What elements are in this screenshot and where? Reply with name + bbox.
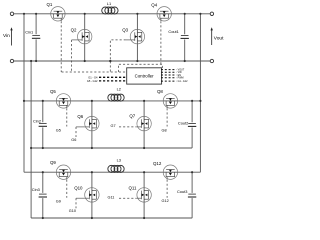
svg-text:Q3: Q3 bbox=[122, 27, 128, 32]
svg-text:G11: G11 bbox=[108, 195, 115, 199]
svg-text:L1: L1 bbox=[107, 1, 111, 6]
svg-text:G9: G9 bbox=[56, 200, 61, 204]
svg-text:Cout3: Cout3 bbox=[177, 189, 187, 194]
svg-text:G12: G12 bbox=[162, 199, 169, 203]
svg-text:G6: G6 bbox=[71, 138, 76, 142]
svg-text:Cin1: Cin1 bbox=[25, 29, 33, 34]
svg-text:Cout2: Cout2 bbox=[178, 121, 188, 126]
svg-text:Controller: Controller bbox=[135, 74, 155, 79]
svg-text:Q4: Q4 bbox=[151, 2, 157, 7]
svg-text:L3: L3 bbox=[117, 157, 121, 162]
svg-text:Q9: Q9 bbox=[50, 160, 56, 165]
svg-text:G7: G7 bbox=[111, 124, 116, 128]
svg-text:G1 - G4: G1 - G4 bbox=[88, 76, 98, 80]
svg-text:Q8: Q8 bbox=[157, 89, 163, 94]
svg-text:Cin2: Cin2 bbox=[33, 118, 41, 123]
svg-text:Q2: Q2 bbox=[71, 27, 77, 32]
svg-text:Cout1: Cout1 bbox=[168, 29, 178, 34]
svg-text:Q6: Q6 bbox=[77, 114, 83, 119]
svg-text:Q12: Q12 bbox=[153, 161, 162, 166]
svg-text:G10: G10 bbox=[69, 209, 76, 213]
svg-text:Q5: Q5 bbox=[50, 89, 56, 94]
svg-text:Cin3: Cin3 bbox=[32, 187, 40, 192]
svg-text:Vout: Vout bbox=[214, 36, 224, 42]
svg-text:G5 - G12: G5 - G12 bbox=[87, 79, 98, 83]
svg-text:Q7: Q7 bbox=[129, 114, 135, 119]
svg-text:L2: L2 bbox=[117, 86, 121, 91]
svg-text:Q11: Q11 bbox=[129, 186, 138, 191]
svg-text:G1 - G12: G1 - G12 bbox=[178, 80, 189, 83]
svg-text:Q10: Q10 bbox=[74, 186, 83, 191]
svg-text:Q1: Q1 bbox=[47, 2, 53, 7]
svg-text:G8: G8 bbox=[162, 128, 167, 132]
svg-text:Vin: Vin bbox=[3, 33, 10, 39]
svg-text:G5: G5 bbox=[56, 129, 61, 133]
